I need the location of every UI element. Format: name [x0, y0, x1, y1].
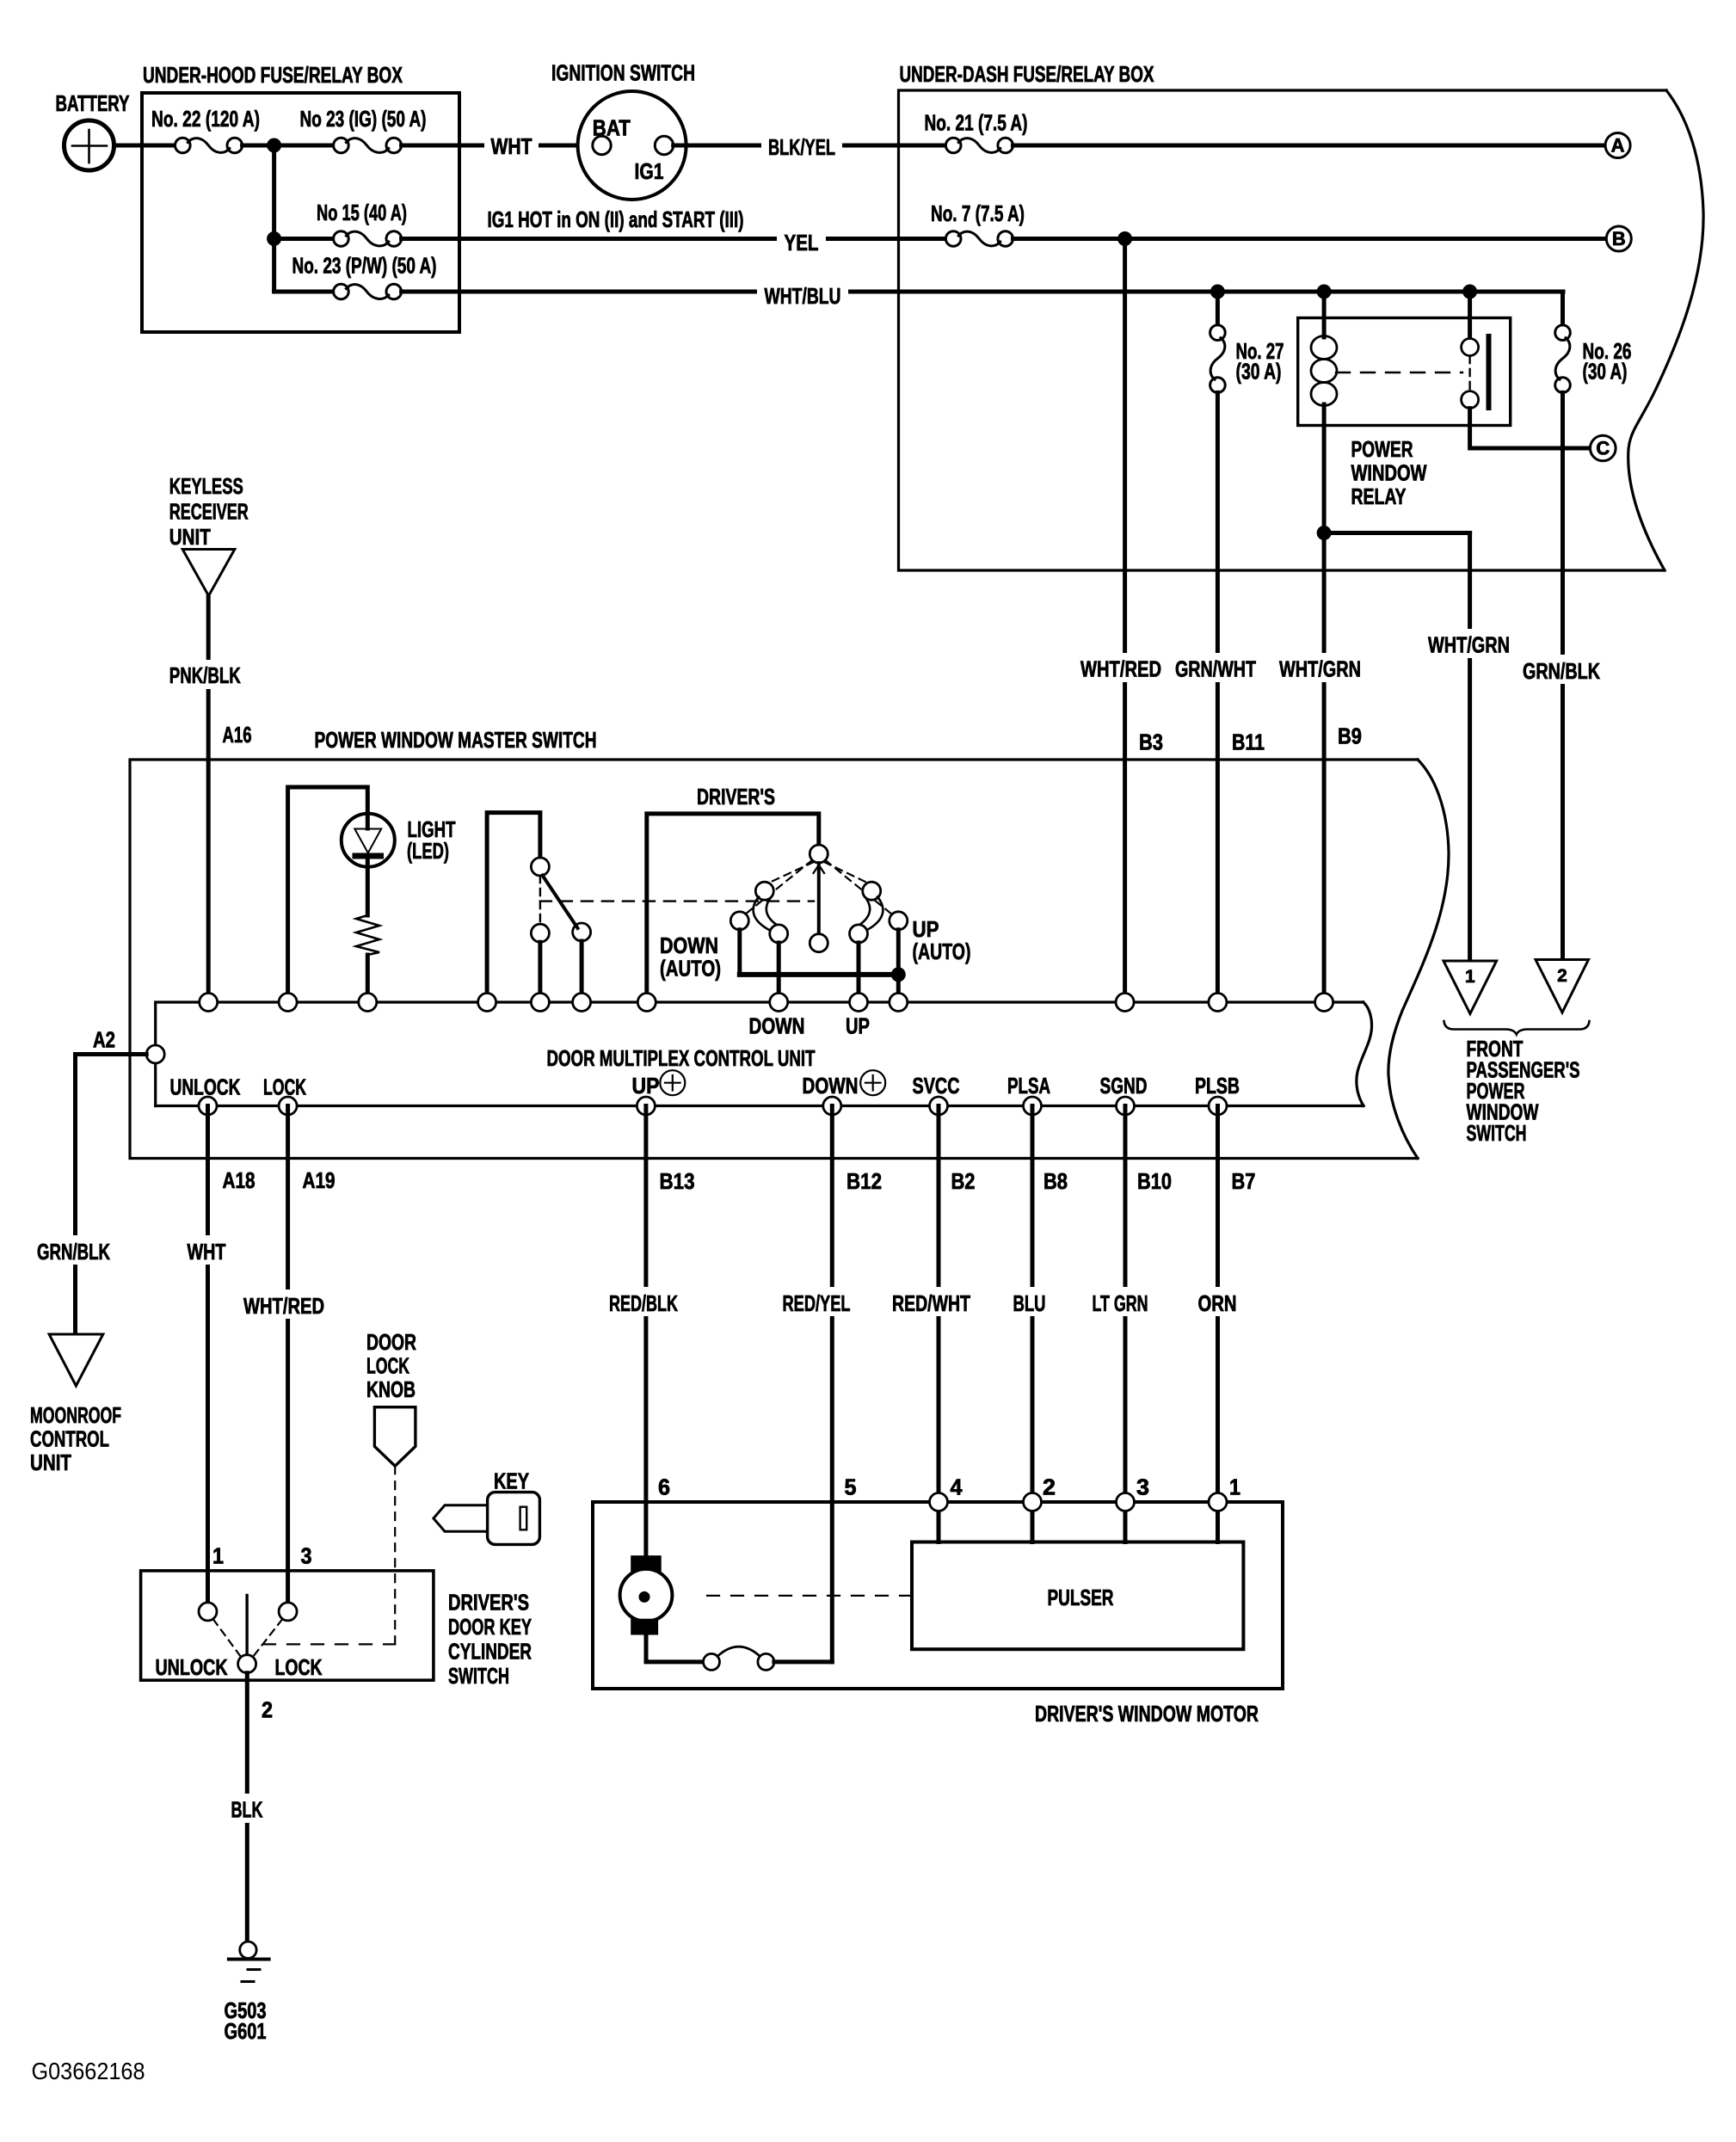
wire corner to fuse 23 P/W [274, 290, 334, 294]
svg-text:YEL: YEL [785, 230, 819, 255]
svg-text:BLK/YEL: BLK/YEL [768, 134, 835, 160]
svg-text:IGNITION SWITCH: IGNITION SWITCH [551, 60, 695, 86]
pulser box [912, 1542, 1243, 1650]
driver's switch center contact [810, 863, 828, 952]
wire contact to C terminal [1470, 409, 1588, 448]
connector terminal C [1591, 435, 1616, 461]
svg-text:RED/YEL: RED/YEL [783, 1290, 851, 1316]
fuse No.7 (7.5 A) [931, 200, 1025, 246]
svg-text:DOWN: DOWN [803, 1073, 859, 1099]
junction dot fuse27 branch [1210, 285, 1225, 299]
svg-text:LT GRN: LT GRN [1093, 1290, 1148, 1316]
wire LED to resistor [366, 859, 370, 916]
svg-text:A18: A18 [223, 1167, 255, 1193]
wire junction to fuse 15 [274, 237, 334, 241]
label WHT/RED [1074, 653, 1168, 682]
svg-text:SVCC: SVCC [913, 1073, 960, 1099]
svg-text:DRIVER'S: DRIVER'S [448, 1590, 529, 1616]
svg-text:WHT/RED: WHT/RED [243, 1293, 324, 1319]
label DOWN (AUTO) [660, 933, 721, 982]
multiplex bottom terminals [199, 1097, 1227, 1115]
terminal IG1 [655, 136, 673, 154]
relay contact [1336, 292, 1489, 409]
under-dash fuse/relay box [899, 61, 1704, 570]
connector triangle 1 [1444, 961, 1497, 1013]
wire relay output to passenger feed [1324, 531, 1470, 535]
label BLK/YEL [761, 131, 842, 160]
label BLK [225, 1794, 269, 1823]
junction dot main feed [267, 138, 281, 153]
wire RED/BLK B13 to motor 6 [643, 1106, 648, 1558]
brace front passenger switch [1444, 1021, 1590, 1035]
svg-text:(LED): (LED) [407, 838, 449, 864]
dashed fan cylinder [213, 1620, 395, 1658]
svg-text:B12: B12 [846, 1168, 882, 1194]
cylinder wiper stub [245, 1595, 248, 1654]
svg-text:6: 6 [658, 1474, 670, 1500]
junction dot No15 branch [267, 231, 281, 246]
svg-text:1: 1 [1229, 1474, 1240, 1500]
svg-text:B2: B2 [951, 1168, 976, 1194]
junction dot relay output [1317, 526, 1332, 540]
svg-text:B7: B7 [1232, 1168, 1256, 1194]
label WHT/RED left [237, 1290, 331, 1319]
connector triangle 2 [1536, 960, 1589, 1013]
svg-text:UP: UP [632, 1073, 660, 1099]
dashed link knob to switch [394, 1466, 396, 1644]
fuse No.15 (40 A) [317, 200, 407, 246]
fuse No.22 (120 A) [151, 106, 260, 153]
motor terminal 4 [930, 1493, 948, 1511]
lock switch branch [487, 813, 540, 1002]
svg-text:3: 3 [1136, 1474, 1149, 1500]
wire row A to terminal A [1013, 144, 1606, 148]
wire GRN/BLK passenger 2 drop [1561, 392, 1565, 970]
svg-text:DRIVER'S WINDOW MOTOR: DRIVER'S WINDOW MOTOR [1035, 1701, 1259, 1727]
fuse No.23 (P/W) (50 A) [292, 253, 437, 299]
power window relay [1298, 318, 1511, 510]
svg-text:IG1: IG1 [635, 158, 664, 184]
terminal 1 cylinder [199, 1603, 217, 1621]
light (LED) [342, 814, 456, 867]
svg-text:(AUTO): (AUTO) [913, 939, 971, 964]
wire WHT/RED B3 drop [1123, 239, 1127, 1003]
wire YEL row: fuse15 to under-dash box [402, 237, 946, 241]
wire resistor to terminal [366, 955, 370, 1002]
label LT GRN [1085, 1287, 1155, 1316]
connector terminal B [1606, 226, 1631, 251]
junction dot B3 branch [1117, 231, 1132, 246]
svg-text:CONTROL: CONTROL [30, 1426, 109, 1452]
label WHT/GRN [1272, 653, 1367, 682]
wire WHT/GRN passenger 1 drop [1468, 533, 1472, 974]
svg-text:ORN: ORN [1198, 1290, 1237, 1316]
label WHT/BLU [757, 280, 848, 310]
svg-text:B10: B10 [1137, 1168, 1172, 1194]
junction dot up(auto) [891, 967, 906, 982]
ground G503 G601 [225, 1942, 269, 2044]
svg-text:PLSB: PLSB [1195, 1073, 1240, 1099]
motor terminal 1 [1209, 1493, 1227, 1511]
terminal circles master row [200, 994, 1333, 1012]
label WHT/GRN 2 [1421, 629, 1516, 658]
svg-text:4: 4 [951, 1474, 963, 1500]
under-hood fuse/relay box [142, 62, 459, 332]
label GRN/WHT [1168, 653, 1263, 682]
label RED/WHT [885, 1287, 978, 1316]
fuse No.26 (30 A) [1555, 325, 1632, 393]
svg-text:UP: UP [846, 1013, 870, 1039]
up(auto) contact [890, 912, 908, 1002]
svg-text:POWER: POWER [1351, 436, 1413, 462]
battery [56, 90, 130, 170]
dashed link motor to pulser [707, 1595, 909, 1597]
driver's switch pivot [810, 845, 828, 863]
svg-text:DOOR KEY: DOOR KEY [448, 1614, 532, 1640]
wire fuse22 to junction [243, 144, 274, 148]
svg-text:UNIT: UNIT [169, 524, 211, 550]
node A2 [93, 1027, 164, 1064]
vertical feed inside under-hood box [272, 145, 276, 292]
resistor [356, 915, 379, 955]
label ORN [1191, 1287, 1243, 1316]
svg-text:B: B [1612, 228, 1626, 249]
moonroof control unit [30, 1334, 121, 1475]
svg-text:RECEIVER: RECEIVER [169, 499, 249, 525]
svg-text:RELAY: RELAY [1351, 483, 1407, 509]
label GRN/BLK left [31, 1235, 119, 1265]
wire fuse 27 feed [1216, 292, 1220, 326]
svg-text:C: C [1596, 438, 1610, 459]
LED branch wire [288, 787, 368, 1002]
svg-text:WHT: WHT [188, 1239, 226, 1265]
wire WHT/BLU row to under-dash [402, 290, 1563, 294]
svg-text:No. 21 (7.5 A): No. 21 (7.5 A) [925, 110, 1028, 136]
fuse No.21 (7.5 A) [925, 110, 1028, 153]
svg-text:UNIT: UNIT [30, 1450, 71, 1475]
svg-text:WHT/GRN: WHT/GRN [1279, 656, 1361, 682]
svg-text:G601: G601 [225, 2018, 267, 2044]
svg-text:2: 2 [262, 1697, 273, 1723]
svg-text:WHT: WHT [491, 133, 532, 159]
svg-text:SWITCH: SWITCH [448, 1663, 509, 1689]
junction dot relay coil branch [1317, 285, 1332, 299]
driver's switch feed wire [647, 814, 819, 1002]
label WHT left [181, 1235, 232, 1265]
label YEL [777, 228, 826, 256]
svg-text:G03662168: G03662168 [32, 2058, 145, 2084]
wire WHT/GRN B9 drop [1322, 533, 1327, 1003]
svg-text:No 15 (40 A): No 15 (40 A) [317, 200, 407, 225]
driver's window motor box [593, 1502, 1283, 1727]
svg-text:DOOR: DOOR [366, 1329, 416, 1355]
svg-text:No. 7 (7.5 A): No. 7 (7.5 A) [931, 200, 1025, 226]
svg-text:2: 2 [1043, 1474, 1056, 1500]
wire ORN B7 to motor 1 [1216, 1106, 1220, 1542]
svg-text:(AUTO): (AUTO) [660, 956, 721, 982]
svg-text:2: 2 [1557, 966, 1567, 986]
svg-text:DOWN: DOWN [749, 1013, 805, 1039]
svg-text:CYLINDER: CYLINDER [448, 1639, 532, 1665]
svg-text:5: 5 [845, 1474, 857, 1500]
wire BLK to ground [245, 1673, 249, 1942]
label DOWN pin with plus [803, 1070, 886, 1099]
label WHT [484, 132, 539, 160]
svg-text:No. 22 (120 A): No. 22 (120 A) [151, 106, 260, 132]
motor terminal 2 [1024, 1493, 1042, 1511]
svg-text:UNLOCK: UNLOCK [170, 1074, 241, 1100]
svg-text:KEYLESS: KEYLESS [169, 473, 243, 499]
relay coil [1311, 292, 1337, 533]
wire WHT/RED lock drop [286, 1106, 290, 1603]
motor connector circles and arc [704, 1647, 774, 1670]
svg-text:RED/WHT: RED/WHT [892, 1290, 970, 1316]
svg-text:LOCK: LOCK [275, 1654, 323, 1680]
wire BLU B8 to motor 2 [1031, 1106, 1035, 1542]
svg-text:A16: A16 [223, 722, 252, 748]
wire motor to connector [646, 1635, 704, 1662]
cylinder common terminal [238, 1655, 256, 1673]
wire LT GRN B10 to motor 3 [1123, 1106, 1128, 1542]
svg-text:3: 3 [301, 1543, 312, 1569]
svg-text:SGND: SGND [1100, 1073, 1148, 1099]
svg-text:No 23 (IG) (50 A): No 23 (IG) (50 A) [300, 106, 427, 132]
svg-text:WHT/RED: WHT/RED [1080, 656, 1161, 682]
svg-text:LOCK: LOCK [366, 1353, 409, 1379]
label UP pin with plus [632, 1070, 686, 1099]
driver's switch fan arrow [814, 865, 825, 874]
wire battery to fuse 22 [114, 144, 176, 148]
svg-text:BLK: BLK [231, 1797, 263, 1823]
svg-text:A19: A19 [303, 1167, 336, 1193]
svg-text:UNDER-HOOD FUSE/RELAY BOX: UNDER-HOOD FUSE/RELAY BOX [143, 62, 403, 88]
svg-text:POWER WINDOW MASTER SWITCH: POWER WINDOW MASTER SWITCH [315, 727, 597, 753]
svg-text:UNDER-DASH FUSE/RELAY BOX: UNDER-DASH FUSE/RELAY BOX [900, 61, 1154, 87]
svg-text:1: 1 [1465, 967, 1475, 987]
wire junction to fuse 23 IG [274, 144, 334, 148]
wire GRN/WHT B11 drop [1216, 392, 1220, 1002]
label PNK/BLK [163, 660, 248, 689]
svg-text:BLU: BLU [1013, 1290, 1046, 1316]
fuse No.27 (30 A) [1210, 325, 1284, 393]
svg-text:B13: B13 [660, 1168, 695, 1194]
svg-text:PULSER: PULSER [1048, 1585, 1114, 1610]
terminal row / multiplex top edge [156, 1002, 1372, 1106]
terminal 3 cylinder [279, 1603, 297, 1621]
terminal BAT [593, 136, 611, 154]
motor M [620, 1555, 673, 1634]
power window master switch box [130, 727, 1449, 1159]
connector terminal A [1605, 133, 1630, 158]
key [434, 1468, 539, 1545]
svg-text:SWITCH: SWITCH [1467, 1120, 1527, 1146]
keyless receiver unit [169, 473, 249, 596]
svg-text:GRN/BLK: GRN/BLK [1523, 658, 1600, 684]
wire WHT unlock drop [206, 1106, 210, 1603]
label UP (AUTO) [913, 916, 971, 964]
driver's door key cylinder switch box [141, 1571, 532, 1689]
svg-text:1: 1 [212, 1543, 224, 1569]
label front passenger's power window switch [1467, 1036, 1580, 1146]
lock switch contacts [531, 858, 814, 1002]
svg-text:A2: A2 [93, 1027, 115, 1053]
junction dot relay contact branch [1462, 285, 1477, 299]
svg-text:WHT/GRN: WHT/GRN [1428, 632, 1510, 658]
up contact with arc [850, 882, 883, 1002]
wire connector to pin5 riser [774, 1659, 832, 1664]
svg-text:BATTERY: BATTERY [56, 90, 130, 116]
ignition switch [551, 60, 695, 200]
svg-text:DOOR MULTIPLEX CONTROL UNIT: DOOR MULTIPLEX CONTROL UNIT [547, 1045, 816, 1071]
label GRN/BLK [1516, 655, 1606, 684]
svg-text:B8: B8 [1043, 1168, 1068, 1194]
svg-text:A: A [1611, 135, 1625, 157]
svg-text:UNLOCK: UNLOCK [156, 1654, 228, 1680]
svg-text:MOONROOF: MOONROOF [30, 1402, 121, 1428]
svg-text:PLSA: PLSA [1007, 1073, 1050, 1099]
svg-text:B11: B11 [1232, 729, 1265, 755]
wire A2 to moonroof [76, 1055, 147, 1335]
svg-text:KNOB: KNOB [366, 1376, 416, 1402]
svg-text:PNK/BLK: PNK/BLK [169, 662, 241, 688]
auto bar wire [740, 972, 899, 977]
label RED/YEL [775, 1287, 858, 1316]
svg-text:(30 A): (30 A) [1583, 359, 1628, 385]
svg-text:WINDOW: WINDOW [1351, 460, 1427, 486]
svg-text:No. 23 (P/W) (50 A): No. 23 (P/W) (50 A) [292, 253, 437, 279]
label BLU [1007, 1287, 1053, 1316]
svg-text:(30 A): (30 A) [1236, 359, 1282, 385]
svg-text:RED/BLK: RED/BLK [609, 1290, 678, 1316]
svg-text:GRN/WHT: GRN/WHT [1175, 656, 1256, 682]
svg-text:WHT/BLU: WHT/BLU [765, 283, 841, 309]
fuse No.23 (IG) (50 A) [300, 106, 427, 153]
down contact with arc [754, 882, 788, 1002]
wire WHT/BLU down to fuse 26 [1561, 292, 1565, 326]
down(auto) contact [730, 912, 748, 975]
label RED/BLK [602, 1287, 685, 1316]
wire PNK/BLK keyless to A16 [206, 596, 211, 1002]
wire WHT: fuse23 to BAT terminal [402, 144, 592, 148]
svg-text:IG1 HOT in ON (II) and START (: IG1 HOT in ON (II) and START (III) [488, 206, 744, 232]
svg-text:DRIVER'S: DRIVER'S [697, 784, 775, 809]
svg-text:LOCK: LOCK [263, 1074, 306, 1100]
svg-text:DOWN: DOWN [660, 933, 718, 958]
wire RED/YEL B12 to motor 5 [830, 1106, 834, 1662]
driver's switch dashed fan [745, 860, 892, 914]
svg-text:B3: B3 [1139, 729, 1163, 755]
motor terminal 3 [1117, 1493, 1135, 1511]
svg-text:B9: B9 [1338, 723, 1362, 749]
wire row B to terminal B [1013, 237, 1607, 241]
wire BLK/YEL: IG1 to under-dash box [674, 144, 946, 148]
door lock knob [366, 1329, 416, 1466]
svg-text:GRN/BLK: GRN/BLK [37, 1239, 110, 1265]
wire RED/WHT B2 to motor 4 [937, 1106, 941, 1542]
svg-text:KEY: KEY [494, 1468, 529, 1494]
